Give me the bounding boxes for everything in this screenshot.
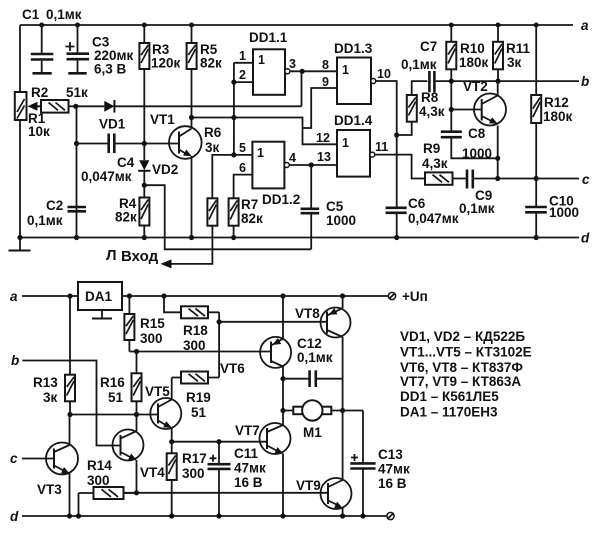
- wire VT1 base line with C4: [77, 143, 180, 145]
- diode VD2: [138, 144, 178, 186]
- node R13 top: [67, 293, 72, 298]
- svg-text:1: 1: [239, 49, 246, 63]
- svg-text:1000: 1000: [326, 213, 356, 228]
- capacitor C10: [525, 179, 579, 238]
- node emitter on rail c: [495, 176, 500, 181]
- svg-text:47мк: 47мк: [378, 462, 410, 477]
- svg-text:R18: R18: [183, 323, 208, 338]
- svg-text:DA1 – 1170ЕН3: DA1 – 1170ЕН3: [400, 405, 498, 420]
- svg-text:82к: 82к: [200, 56, 222, 71]
- svg-text:b: b: [11, 353, 19, 368]
- svg-text:VT4: VT4: [140, 465, 165, 480]
- svg-text:R13: R13: [33, 375, 58, 390]
- wire DD1.4 output 11 to rail c: [375, 155, 425, 179]
- diode VD1: [99, 100, 126, 132]
- svg-text:VT3: VT3: [37, 482, 62, 497]
- svg-text:VT2: VT2: [463, 79, 488, 94]
- svg-text:0,047мк: 0,047мк: [408, 211, 459, 226]
- svg-text:+Uп: +Uп: [402, 289, 428, 304]
- svg-text:300: 300: [87, 473, 110, 488]
- svg-text:180к: 180к: [543, 109, 573, 124]
- svg-text:c: c: [582, 172, 590, 187]
- wire rail a (top): [20, 18, 589, 33]
- node VT8 base tee: [217, 319, 222, 324]
- resistor R17: [167, 442, 207, 516]
- wire rail a (bottom): [10, 289, 388, 304]
- node R8 tee: [394, 132, 399, 137]
- svg-text:C13: C13: [378, 447, 403, 462]
- wire VT5 collector: [171, 378, 173, 400]
- transistor VT4: [113, 415, 166, 493]
- node R15 top: [127, 293, 132, 298]
- wire R15 bottom line to VT6 base: [129, 351, 271, 353]
- svg-text:Вход: Вход: [121, 248, 159, 265]
- svg-text:1: 1: [342, 136, 349, 150]
- svg-text:51: 51: [191, 405, 207, 420]
- svg-text:VT5: VT5: [145, 384, 170, 399]
- svg-text:a: a: [10, 289, 18, 304]
- svg-text:0,1мк: 0,1мк: [401, 57, 437, 72]
- capacitor C1: [22, 7, 82, 73]
- svg-text:VT1...VT5 – КТ3102Е: VT1...VT5 – КТ3102Е: [400, 345, 532, 360]
- svg-text:VD1: VD1: [99, 117, 126, 132]
- resistor R4: [115, 185, 149, 237]
- node R3 on rail a: [142, 23, 147, 28]
- svg-text:10: 10: [377, 67, 391, 81]
- node R16 top: [134, 349, 139, 354]
- svg-text:1: 1: [342, 63, 349, 77]
- IC DA1: [78, 282, 122, 319]
- svg-text:16 В: 16 В: [378, 476, 407, 491]
- transistor VT8: [295, 306, 351, 338]
- wire R6 bottom to input line: [170, 226, 212, 264]
- svg-text:3к: 3к: [205, 140, 220, 155]
- transistor VT3: [10, 415, 78, 517]
- svg-text:16 В: 16 В: [234, 475, 263, 490]
- svg-text:d: d: [581, 231, 590, 246]
- node C12 left: [280, 376, 285, 381]
- terminal bottom: [387, 512, 394, 519]
- svg-text:300: 300: [182, 466, 205, 481]
- svg-text:R12: R12: [544, 95, 569, 110]
- resistor R15: [124, 296, 165, 352]
- svg-text:12: 12: [316, 131, 330, 145]
- svg-text:DD1 – К561ЛЕ5: DD1 – К561ЛЕ5: [400, 389, 499, 404]
- node: C3 on rail a: [75, 23, 80, 28]
- svg-text:VT1: VT1: [150, 112, 175, 127]
- svg-text:C1: C1: [22, 7, 40, 22]
- svg-text:2: 2: [239, 68, 246, 82]
- wire staple (C5 bottom to VD2/R4 node): [144, 185, 311, 249]
- node pin2 tie: [231, 80, 236, 85]
- resistor R18: [164, 296, 219, 353]
- svg-text:4,3к: 4,3к: [419, 104, 445, 119]
- resistor R12: [531, 25, 572, 179]
- svg-text:d: d: [10, 509, 19, 524]
- svg-text:R9: R9: [423, 141, 440, 156]
- node line A on output wire: [300, 69, 305, 74]
- svg-text:R10: R10: [460, 41, 485, 56]
- node VT6 emitter top: [280, 293, 285, 298]
- svg-text:DA1: DA1: [85, 289, 112, 304]
- node R18 top: [161, 293, 166, 298]
- svg-text:VD2: VD2: [152, 162, 178, 177]
- capacitor C12: [283, 336, 343, 387]
- wire VT1 collector / R5 lead: [191, 25, 193, 238]
- wire rail c segment with C9: [453, 178, 580, 180]
- svg-text:a: a: [581, 18, 589, 33]
- svg-text:c: c: [10, 451, 18, 466]
- gate DD1.2 with pins 5,6: [212, 141, 300, 207]
- wire DD1.2 output to DD1.4 pin13: [289, 164, 337, 166]
- svg-text:8: 8: [322, 58, 329, 72]
- capacitor C13: [350, 411, 410, 517]
- wire VT8 emitter up / collector down: [342, 296, 344, 411]
- svg-text:9: 9: [322, 75, 329, 89]
- svg-text:R2: R2: [31, 85, 48, 100]
- capacitor C9: [459, 170, 495, 217]
- capacitor C6: [386, 196, 459, 238]
- wire C7/rail b left corner: [412, 81, 579, 95]
- svg-text:C5: C5: [326, 199, 344, 214]
- wire VT6 emitter up: [282, 296, 284, 339]
- capacitor C3: [66, 25, 134, 77]
- wire DD1.1 output to DD1.3 pin8: [290, 70, 337, 72]
- svg-text:1: 1: [258, 53, 265, 67]
- wire left edge vertical: [19, 25, 21, 238]
- capacitor C4: [81, 134, 135, 185]
- svg-text:C6: C6: [408, 196, 426, 211]
- svg-text:0,1мк: 0,1мк: [459, 201, 495, 216]
- svg-text:13: 13: [317, 150, 331, 164]
- node line B at collector: [189, 115, 194, 120]
- node C4 tee: [74, 141, 79, 146]
- svg-text:C2: C2: [46, 198, 63, 213]
- svg-text:VT9: VT9: [296, 478, 321, 493]
- resistor R10: [446, 25, 488, 81]
- svg-text:82к: 82к: [115, 210, 137, 225]
- input arrow: [106, 247, 172, 268]
- resistor R11: [493, 25, 531, 81]
- svg-text:VT7: VT7: [235, 423, 260, 438]
- node R2 wiper junction: [73, 104, 78, 109]
- svg-text:b: b: [581, 74, 589, 89]
- wire base line R13bottom-VT5: [70, 414, 158, 416]
- svg-text:R11: R11: [506, 41, 531, 56]
- svg-text:120к: 120к: [151, 56, 181, 71]
- svg-text:DD1.2: DD1.2: [262, 192, 300, 207]
- svg-text:300: 300: [183, 338, 206, 353]
- wire VT2 base line: [451, 109, 481, 111]
- svg-text:51к: 51к: [66, 85, 88, 100]
- ground: [9, 238, 31, 251]
- wire line A (R2 node to DD1.1 output) with VD1: [76, 71, 302, 106]
- svg-text:VT6: VT6: [220, 361, 245, 376]
- capacitor C8: [441, 81, 498, 161]
- svg-text:DD1.4: DD1.4: [334, 113, 373, 128]
- gate DD1.3: [322, 41, 391, 104]
- svg-text:3к: 3к: [507, 55, 522, 70]
- wire VT5 emitter line to VT7 base: [172, 441, 267, 443]
- svg-text:6,3 В: 6,3 В: [94, 62, 127, 77]
- node VD2/base junction: [142, 141, 147, 146]
- svg-text:3к: 3к: [43, 390, 58, 405]
- resistor R16: [100, 352, 142, 415]
- parts list: [400, 329, 532, 420]
- svg-text:R16: R16: [100, 375, 125, 390]
- svg-text:C4: C4: [117, 155, 135, 170]
- node C6 on rail d: [394, 235, 399, 240]
- svg-text:R7: R7: [241, 197, 258, 212]
- svg-text:4,3к: 4,3к: [422, 156, 448, 171]
- svg-text:3: 3: [289, 57, 296, 71]
- op-amp gate DD1.1: [239, 30, 296, 95]
- resistor R5: [187, 42, 222, 71]
- svg-text:180к: 180к: [459, 55, 489, 70]
- capacitor C11: [208, 439, 267, 516]
- node: C1 on rail a: [39, 23, 44, 28]
- transistor VT7: [235, 411, 291, 517]
- svg-text:0,1мк: 0,1мк: [297, 350, 333, 365]
- svg-text:R14: R14: [87, 458, 112, 473]
- motor M1: [283, 400, 363, 440]
- gate DD1.4: [316, 113, 388, 177]
- resistor R2 with wiper arrow: [28, 85, 89, 113]
- transistor VT5: [145, 384, 181, 442]
- svg-text:C8: C8: [468, 126, 486, 141]
- svg-text:VT8: VT8: [295, 306, 320, 321]
- svg-text:5: 5: [239, 141, 246, 155]
- svg-text:4: 4: [289, 151, 296, 165]
- svg-text:51: 51: [108, 390, 124, 405]
- node C5 tee: [309, 162, 314, 167]
- capacitor C5: [301, 165, 356, 249]
- node DD1.1 inputs on line B: [231, 115, 236, 120]
- wire VT4 emitter line to VT9 base: [124, 492, 329, 494]
- svg-text:0,047мк: 0,047мк: [81, 169, 132, 184]
- svg-text:DD1.1: DD1.1: [249, 30, 288, 45]
- svg-text:R19: R19: [186, 390, 211, 405]
- svg-text:1000: 1000: [549, 205, 579, 220]
- transistor VT6: [220, 337, 291, 376]
- svg-text:82к: 82к: [241, 211, 263, 226]
- svg-text:C7: C7: [420, 39, 437, 54]
- resistor R13: [33, 296, 75, 415]
- wire to VT8 base: [219, 321, 327, 323]
- svg-text:VT7, VT9 – КТ863А: VT7, VT9 – КТ863А: [400, 374, 521, 389]
- node C8/emitter: [495, 156, 500, 161]
- wire DD1.1 input tie: [234, 63, 253, 155]
- svg-text:1: 1: [257, 146, 264, 160]
- resistor R1 (potentiometer track): [15, 92, 50, 139]
- svg-text:R6: R6: [204, 125, 222, 140]
- svg-text:R15: R15: [140, 316, 165, 331]
- wire VT6 collector down: [282, 367, 284, 411]
- wire DD1.3 output node 10: [376, 81, 397, 207]
- node R5 on rail a: [189, 23, 194, 28]
- svg-text:VD1, VD2 – КД522Б: VD1, VD2 – КД522Б: [400, 329, 525, 344]
- terminal +Un: [388, 289, 427, 304]
- resistor R7: [229, 197, 263, 238]
- svg-text:0,1мк: 0,1мк: [27, 213, 63, 228]
- svg-text:0,1мк: 0,1мк: [46, 7, 82, 22]
- node VD2/R4 junction: [142, 183, 147, 188]
- svg-text:R17: R17: [182, 451, 207, 466]
- wire rail d (top section): [20, 231, 590, 246]
- resistor R6: [204, 125, 222, 226]
- resistor R9: [422, 141, 453, 185]
- wire line B (collector to gates): [192, 88, 338, 144]
- resistor R14: [79, 458, 136, 516]
- svg-text:C12: C12: [297, 336, 322, 351]
- wire rail b (bottom) to VT4 base: [11, 353, 121, 446]
- resistor R3: [139, 25, 180, 144]
- svg-text:6: 6: [239, 161, 246, 175]
- wire rail d (bottom): [10, 509, 387, 524]
- wire R18/R19 right vertical: [218, 312, 220, 377]
- transistor VT1: [150, 112, 202, 159]
- svg-text:10к: 10к: [28, 124, 50, 139]
- svg-text:300: 300: [140, 331, 163, 346]
- capacitor C7: [401, 39, 437, 92]
- svg-text:М1: М1: [303, 425, 322, 440]
- wire vertical x=76.5 (R2 node down to rail d): [76, 106, 78, 237]
- transistor VT9: [296, 411, 352, 517]
- svg-text:1000: 1000: [462, 146, 492, 161]
- svg-text:C11: C11: [234, 446, 259, 461]
- node VT8 emitter top: [340, 293, 345, 298]
- transistor VT2: [463, 79, 506, 179]
- svg-text:11: 11: [375, 140, 388, 154]
- svg-text:47мк: 47мк: [234, 461, 266, 476]
- wire R8 tee to R8: [397, 122, 412, 135]
- capacitor C2: [27, 198, 86, 228]
- resistor R8: [407, 90, 445, 122]
- svg-text:Л: Л: [106, 247, 117, 264]
- svg-text:DD1.3: DD1.3: [334, 41, 373, 56]
- svg-text:VT6, VT8 – КТ837Ф: VT6, VT8 – КТ837Ф: [400, 360, 523, 375]
- resistor R19: [172, 372, 219, 421]
